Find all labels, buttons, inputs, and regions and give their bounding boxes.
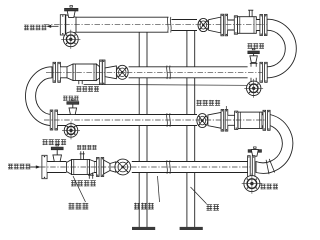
label 混合段 (mixing section) [69,203,89,210]
valve sample port top row4 [248,147,261,156]
break symbol row1 [167,17,171,33]
centerline row2 [46,71,262,73]
leader reaction section [158,176,160,202]
flange circle below row2 right [244,79,263,98]
wire row4 tiny stub [95,162,97,173]
label 热媒进口 (heat medium inlet, row4) [77,145,97,150]
flange pair row2 left bend end [53,62,60,82]
heat medium inlet stub row4 [80,151,85,159]
valve (front view) row2 [116,65,128,79]
support base plate left [132,227,155,230]
leader mixing section [73,176,86,202]
valve (front view) row3 [197,114,208,128]
wire row4 long pipe [132,162,248,173]
flange pair row3 right [221,110,228,132]
wire row4 pipe mixing inlet [47,162,66,173]
wire row2 long pipe [129,67,248,78]
wire row1 short neck [228,20,235,30]
valve material inlet 2 row4 [51,144,63,161]
U-bend row3 to row4 right [256,115,293,174]
flange pair row1 bend end [260,15,267,36]
break symbol row3 [167,113,171,127]
flange row1 left end [60,15,65,35]
flange ticks on lower right bend [269,159,275,173]
pressure tap stub up row2 [250,62,258,66]
valve V1 material outlet top [65,6,79,18]
flange row2 mid (tall) [100,60,105,85]
heat medium line row2 [84,83,248,86]
barrel (jacketed section) row3 [238,112,262,128]
valve (front view) row1 right [198,18,209,31]
heat medium outlet stub row4 [88,173,94,179]
expander cone row2 [67,64,73,81]
flange pair row1 right [221,14,228,36]
label 热媒进口 (heat medium inlet, row3) [197,100,221,106]
flange circle below row1 left [61,30,80,49]
centerline row1 [44,24,267,26]
valve temperature port row3 [67,99,79,115]
flange row3 barrel head [235,111,238,129]
leader tick heat medium inlet row3 [225,106,227,110]
flange row4 material inlet [42,155,47,178]
label 热媒出口 (heat medium outlet, row2) [77,86,99,92]
venturi mixer row4 [104,160,110,174]
break symbol row2 [167,66,171,80]
label 热媒出口 (heat medium outlet, row4) [71,180,96,186]
wire row3 short neck [228,115,235,125]
centerline row4 [30,166,250,168]
label 测压口 (pressure port) [248,43,265,49]
break symbol row4 [167,160,171,174]
arrow material outlet row1 [46,25,58,28]
wire row3 tiny stub [262,115,264,126]
reducer cone row1 left [66,15,76,35]
flange pair row4 right end [248,156,255,179]
label 支架 (support) [207,204,220,211]
U-bend row1 to row2 right [267,19,296,78]
expander cone row1 right [209,17,221,33]
wire row2 short pipe left [60,67,67,78]
centerline row3 [44,119,266,121]
wire row1 pipe right [172,20,198,31]
label 反应段 (reaction section) [134,203,154,210]
wire row1 stub to flange [256,20,260,31]
leader support [191,187,207,204]
arrow material inlet row4 [30,165,41,168]
support column left [139,30,147,227]
flange pair row2 right bend end [260,62,267,82]
flange pair row3 bend end [263,110,270,130]
reducer cone row2 [96,64,99,81]
reducer cone row4 mixer [90,160,95,175]
support base plate right [180,227,203,230]
expander cone row2 [105,66,116,79]
barrel (jacketed section) row2 [73,64,96,81]
flange pair row4 mixer [97,158,104,177]
label 物料进口 (material inlet, row4 top) [43,139,67,145]
flange circle below row3 left [62,121,80,139]
U-bend row2 to row3 left [26,67,53,126]
support column right [187,30,195,227]
flange row1 barrel head [234,16,237,34]
barrel (jacketed section) row1 [238,17,257,34]
valve pressure measuring port 测压口 [248,48,260,62]
expander cone row4 mixer [67,160,72,175]
label 物料进口 (material inlet, row4 left) [8,164,30,170]
flange pair row3 left bend end [50,110,57,130]
heat medium outlet stub row2 [79,81,82,85]
jacket stub row1 top [248,10,253,17]
valve reaction section row4 (front view) [115,159,131,175]
barrel mixing chamber row4 [72,160,90,175]
label 物料出口 (material outlet, row1) [24,25,46,31]
expander cone row3 right [208,112,221,128]
label 取样口 (sample port) [261,184,279,190]
wire row3 long pipe [58,115,198,126]
drain stub down row2 [251,78,256,82]
flange circle sample port row4 [242,173,262,193]
label 测温孔 (temperature hole, row3) [63,96,79,101]
wire row1 pipe left (jacketed run) [76,17,169,32]
